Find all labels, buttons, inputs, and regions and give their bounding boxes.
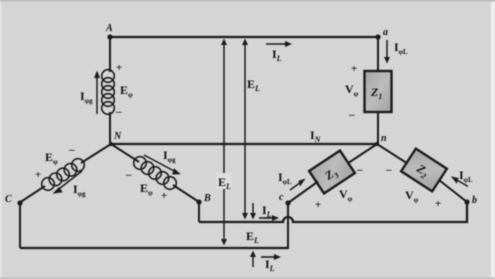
svg-text:–: – (356, 164, 363, 176)
wire neutral N to n (110, 143, 377, 145)
dimension line E_L right (A line to B line) (242, 39, 248, 220)
wire top line A to a (110, 36, 378, 38)
wire n to Z3 (346, 144, 377, 165)
svg-text:+: + (161, 190, 167, 202)
current arrow I_phi-g phase A (94, 71, 100, 115)
current arrow I_phi-g phase B (144, 155, 181, 175)
svg-text:–: – (68, 144, 75, 156)
impedance Z3 (309, 151, 355, 194)
current arrow I_L bottom line (261, 254, 281, 260)
wire B down (198, 202, 200, 222)
svg-text:a: a (383, 27, 388, 38)
wire c down to bottom wire (287, 203, 289, 248)
svg-text:C: C (5, 194, 12, 205)
impedance Z1 (365, 71, 392, 112)
wire bottom C to c (20, 247, 289, 249)
wire coil to node N (109, 112, 111, 144)
svg-text:c: c (279, 192, 284, 203)
wire n to Z2 (377, 144, 409, 165)
svg-text:–: – (125, 169, 132, 181)
current arrow I_phi-L at Z2 (451, 176, 468, 186)
node C (17, 200, 22, 205)
wire C down (19, 203, 21, 248)
node A (107, 34, 112, 39)
svg-text:+: + (35, 169, 41, 181)
wire Z1 to node n (377, 112, 379, 144)
label Z2 (412, 161, 431, 181)
dimension line E_L left (A line to C line) (221, 39, 227, 246)
node N junction (109, 142, 113, 146)
node c (285, 200, 290, 205)
svg-text:n: n (381, 133, 387, 144)
svg-text:–: – (348, 109, 355, 121)
wire Z2 to node b (439, 180, 467, 202)
svg-text:A: A (105, 23, 113, 34)
svg-text:+: + (351, 63, 357, 75)
svg-text:N: N (113, 131, 122, 142)
svg-text:B: B (203, 193, 211, 204)
node a (375, 34, 380, 39)
wire a down to Z1 (377, 37, 379, 71)
node b (464, 199, 469, 204)
current arrow I_L top line (266, 41, 292, 47)
node B (196, 199, 201, 204)
svg-text:+: + (315, 199, 321, 211)
generator coil E_phi phase B (134, 157, 177, 190)
svg-text:+: + (116, 62, 122, 74)
wire coil to node C (19, 186, 45, 203)
dimension arrow up (B-C gap) (250, 251, 256, 268)
generator coil E_phi phase A (102, 70, 115, 115)
wire N to coil B-phase (111, 144, 139, 162)
node n junction (375, 142, 379, 146)
generator coil E_phi phase C (42, 159, 85, 191)
wire N to coil C-phase (81, 144, 111, 163)
wire Z3 to node c (288, 182, 318, 204)
label Z3 (321, 165, 340, 185)
current arrow I_phi-L at Z3 (290, 179, 306, 191)
svg-text:b: b (472, 195, 477, 206)
label E_L left dimension (217, 173, 232, 191)
current arrow I_L middle line (259, 215, 279, 221)
impedance Z2 (401, 149, 447, 192)
wire coil to node B (173, 185, 199, 202)
svg-text:+: + (435, 198, 441, 210)
svg-text:–: – (115, 106, 122, 118)
wire A down to coil (109, 37, 111, 72)
wire B to b with hop over c line (199, 202, 467, 222)
current arrow I_phi-L at Z1 (384, 40, 390, 64)
svg-text:–: – (385, 164, 392, 176)
dimension arrow down (B-C gap) (250, 203, 256, 220)
current arrow I_phi-g phase C (53, 171, 83, 194)
